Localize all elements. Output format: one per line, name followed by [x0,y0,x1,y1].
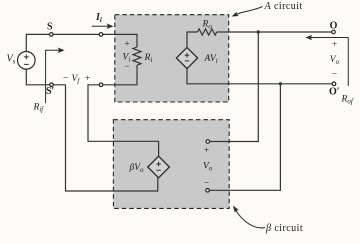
wire AVi diamond bottom to output terminal O' [187,69,334,84]
terminal input bottom [99,83,103,87]
svg-text:+: + [332,40,337,50]
wire left feedback down to beta box [66,85,158,191]
resistor Ro [198,29,217,35]
junction node on bottom output wire [279,82,282,85]
wire Vs top to S to input terminal [26,34,101,51]
B circuit box [113,120,229,209]
svg-text:A circuit: A circuit [264,1,303,12]
terminal O [332,30,336,34]
wire beta right top terminal to node under output [208,32,258,142]
svg-text:−: − [63,74,68,84]
terminal input top [99,33,103,37]
svg-text:β circuit: β circuit [265,223,303,234]
svg-text:O: O [330,20,338,31]
arrow Rif [46,48,65,104]
wire Ro to output terminal O [217,31,334,33]
arrow Rof [305,35,348,86]
wire AVi diamond top to Ro [187,32,198,47]
terminal beta bottom [206,189,210,193]
wire beta right bottom terminal to node under output [208,84,281,191]
terminal S [50,33,54,37]
resistor Ri [133,47,141,65]
svg-text:+: + [125,39,130,49]
svg-text:O′: O′ [329,87,340,98]
svg-text:S′: S′ [46,86,55,97]
current arrow Ii [92,23,114,29]
terminal S' [50,83,54,87]
dep source beta-Vo [148,156,170,178]
wire input terminal to Ri top [101,34,137,47]
wire Ri bottom to input lower terminal [101,65,137,85]
callout arrow B circuit [233,206,265,228]
terminal O' [332,82,336,86]
svg-text:−: − [204,179,209,189]
A circuit box [115,15,229,102]
svg-text:+: + [204,146,209,156]
source Vs [18,52,36,70]
svg-text:−: − [125,61,130,71]
wire Vs bottom to S' [26,69,65,85]
svg-text:S: S [47,22,53,33]
svg-text:−: − [332,70,337,80]
svg-text:+: + [85,74,90,84]
junction node on top output wire [257,30,260,33]
wire lower input terminal down to beta diamond top [88,85,159,156]
svg-text:AVi: AVi [204,54,218,65]
callout arrow A circuit [232,7,263,17]
terminal beta top [206,140,210,144]
dep source AVi [176,47,197,68]
